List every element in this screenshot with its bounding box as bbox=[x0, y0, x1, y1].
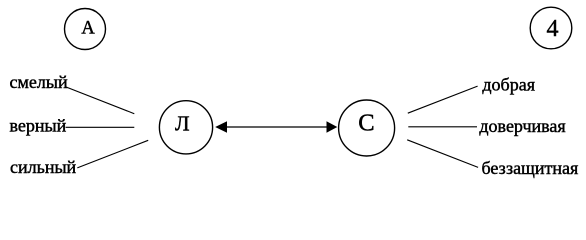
svg-text:доверчивая: доверчивая bbox=[479, 116, 565, 136]
svg-text:беззащитная: беззащитная bbox=[482, 158, 579, 178]
wire from С to беззащитная bbox=[407, 140, 478, 168]
circle A (top-left node) bbox=[65, 9, 106, 50]
wire from верный to Л bbox=[66, 126, 135, 128]
double-headed arrow between Л and С bbox=[215, 121, 337, 133]
svg-text:верный: верный bbox=[10, 115, 67, 135]
wire from сильный to Л bbox=[77, 140, 148, 168]
circle 4 (top-right node) bbox=[530, 7, 572, 49]
wire from С to добрая bbox=[408, 86, 478, 113]
circle Л (left center node) bbox=[159, 101, 212, 154]
svg-text:Л: Л bbox=[175, 111, 190, 135]
svg-text:С: С bbox=[358, 110, 374, 137]
wire from С to доверчивая bbox=[408, 126, 477, 128]
svg-text:смелый: смелый bbox=[10, 72, 68, 92]
circle С (right center node) bbox=[339, 100, 395, 156]
svg-text:сильный: сильный bbox=[10, 157, 77, 177]
wire from смелый to Л bbox=[65, 87, 135, 114]
svg-text:добрая: добрая bbox=[482, 74, 535, 94]
svg-text:4: 4 bbox=[547, 16, 559, 42]
svg-text:А: А bbox=[81, 19, 95, 39]
